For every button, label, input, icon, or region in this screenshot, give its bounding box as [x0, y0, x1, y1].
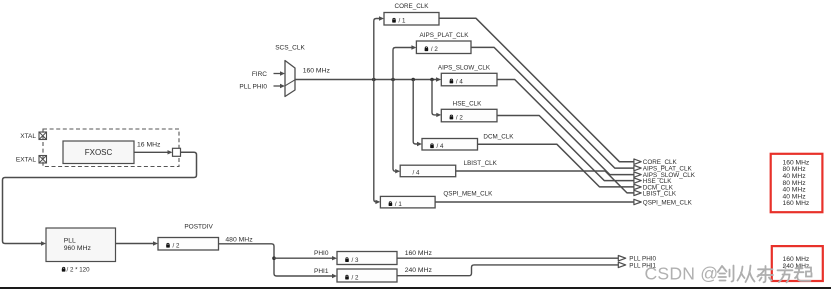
wire LBIST_CLK to output	[456, 171, 634, 193]
divider PHI1 /2	[337, 269, 397, 282]
divider HSE_CLK /2	[441, 100, 497, 122]
svg-text:/ 2: / 2	[431, 46, 438, 53]
svg-text:160 MHz: 160 MHz	[783, 200, 810, 207]
svg-text:POSTDIV: POSTDIV	[184, 224, 213, 231]
output arrow DCM_CLK	[634, 184, 674, 191]
wire PHI0 160 MHz to output	[397, 250, 618, 258]
svg-text:/ 4: / 4	[413, 170, 420, 177]
svg-text:240 MHz: 240 MHz	[405, 267, 433, 274]
output arrow LBIST_CLK	[634, 190, 677, 197]
FXOSC dashed boundary	[43, 129, 179, 167]
node FXOSC output port	[173, 148, 181, 156]
node junction 4	[430, 78, 434, 82]
watermark glyph qi	[795, 266, 812, 281]
frequency values red box top	[771, 154, 823, 212]
wire to HSE_CLK divider	[432, 80, 441, 118]
svg-text:HSE_CLK: HSE_CLK	[453, 100, 482, 107]
output arrow PLL PHI0	[618, 256, 656, 263]
wire arrow into PHI1 divider	[314, 268, 337, 278]
svg-text:DCM_CLK: DCM_CLK	[483, 133, 514, 140]
wire HSE_CLK to output	[497, 116, 634, 181]
output arrow HSE_CLK	[634, 178, 672, 185]
svg-text:/ 1: / 1	[395, 201, 402, 208]
svg-text:CSDN @: CSDN @	[645, 264, 719, 284]
divider CORE_CLK /1	[384, 3, 439, 25]
node junction 2	[391, 78, 395, 82]
divider POSTDIV /2	[158, 224, 219, 250]
svg-text:SCS_CLK: SCS_CLK	[275, 45, 305, 52]
divider DCM_CLK /4	[422, 133, 514, 150]
svg-text:QSPI_MEM_CLK: QSPI_MEM_CLK	[643, 199, 693, 206]
divider QSPI_MEM_CLK /1	[380, 191, 493, 208]
svg-text:AIPS_PLAT_CLK: AIPS_PLAT_CLK	[420, 32, 470, 39]
svg-text:CORE_CLK: CORE_CLK	[395, 3, 430, 10]
wire POSTDIV 480 MHz	[219, 237, 334, 277]
wire PLL PHI0 input	[274, 84, 286, 88]
svg-text:XTAL: XTAL	[20, 133, 36, 140]
watermark glyph fang	[778, 266, 793, 283]
svg-text:/ 2: / 2	[352, 274, 359, 281]
output arrow AIPS_SLOW_CLK	[634, 172, 696, 179]
svg-text:PHI1: PHI1	[314, 268, 329, 275]
svg-text:16 MHz: 16 MHz	[137, 141, 161, 148]
svg-text:960 MHz: 960 MHz	[64, 245, 92, 252]
divider PHI0 /3	[337, 252, 397, 265]
output arrow CORE_CLK	[634, 159, 678, 166]
svg-text:/ 2: / 2	[173, 243, 180, 250]
wire SCS_CLK 160 MHz main	[295, 67, 441, 82]
divider AIPS_SLOW_CLK /4	[438, 64, 497, 86]
wire AIPS_SLOW_CLK to output	[497, 80, 634, 175]
svg-text:FIRC: FIRC	[252, 71, 267, 78]
oscillator FXOSC	[63, 141, 134, 164]
wire to DCM_CLK divider	[413, 80, 422, 147]
svg-text:/ 2: / 2	[456, 114, 463, 121]
node junction PHI split	[272, 256, 276, 260]
svg-text:FXOSC: FXOSC	[85, 148, 113, 157]
wire to CORE_CLK divider	[374, 16, 384, 79]
svg-text:160 MHz: 160 MHz	[303, 67, 331, 74]
svg-text:160 MHz: 160 MHz	[405, 250, 433, 257]
svg-text:PHI0: PHI0	[314, 250, 329, 257]
divider AIPS_PLAT_CLK /2	[416, 32, 471, 54]
svg-text:/ 2 * 120: / 2 * 120	[67, 267, 91, 274]
watermark glyph jian	[718, 266, 734, 282]
watermark glyph dong	[758, 266, 774, 282]
output arrow PLL PHI1	[618, 262, 656, 269]
svg-text:AIPS_SLOW_CLK: AIPS_SLOW_CLK	[438, 64, 491, 71]
svg-text:/ 4: / 4	[437, 143, 444, 150]
svg-text:/ 1: / 1	[399, 18, 406, 25]
output arrow QSPI_MEM_CLK	[634, 199, 693, 206]
PLL block	[46, 228, 116, 274]
node junction 3	[411, 78, 415, 82]
watermark glyph cong	[738, 266, 755, 283]
svg-text:LBIST_CLK: LBIST_CLK	[464, 160, 498, 167]
wire to LBIST_CLK divider	[393, 80, 400, 174]
svg-text:PLL: PLL	[64, 237, 76, 244]
frequency values red box bottom	[772, 246, 823, 281]
pin XTAL	[39, 132, 47, 140]
svg-text:QSPI_MEM_CLK: QSPI_MEM_CLK	[443, 191, 493, 198]
wire AIPS_PLAT_CLK to output	[471, 47, 634, 168]
wire FIRC input	[274, 71, 286, 75]
svg-text:EXTAL: EXTAL	[16, 157, 36, 164]
wire FXOSC to PLL loop	[3, 152, 197, 243]
mux SCS_CLK	[275, 45, 305, 97]
wire PHI1 240 MHz to output	[397, 265, 618, 276]
wire CORE_CLK to output	[439, 18, 634, 161]
output arrow AIPS_PLAT_CLK	[634, 165, 693, 172]
wire to AIPS_PLAT_CLK divider	[393, 45, 416, 79]
wire to PHI0 divider	[274, 250, 337, 260]
svg-text:/ 4: / 4	[456, 78, 463, 85]
divider LBIST_CLK /4	[400, 160, 497, 177]
svg-text:480 MHz: 480 MHz	[225, 237, 253, 244]
wire FXOSC output 16 MHz	[134, 141, 173, 154]
bottom border line	[0, 287, 831, 289]
svg-text:/ 3: / 3	[352, 257, 359, 264]
svg-text:LBIST_CLK: LBIST_CLK	[643, 190, 677, 197]
pin EXTAL	[39, 156, 47, 164]
wire DCM_CLK to output	[478, 144, 634, 187]
node junction 1	[372, 78, 376, 82]
wire PLL to POSTDIV	[116, 241, 159, 245]
svg-text:PLL PHI0: PLL PHI0	[239, 83, 267, 90]
wire to QSPI_MEM_CLK divider	[374, 80, 381, 205]
wire QSPI_MEM_CLK to output	[435, 201, 634, 203]
